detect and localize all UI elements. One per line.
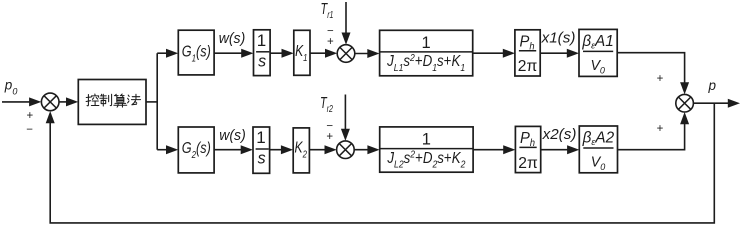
svg-text:s: s [258,51,266,70]
svg-text:βεA2: βεA2 [582,129,615,147]
svg-text:1: 1 [257,31,266,50]
svg-text:2π: 2π [518,58,538,75]
svg-text:w(s): w(s) [219,31,246,47]
svg-text:1: 1 [256,128,265,147]
svg-text:1: 1 [422,131,431,149]
svg-text:βεA1: βεA1 [581,33,613,51]
svg-text:2π: 2π [518,155,538,172]
svg-text:+: + [326,131,333,143]
svg-text:+: + [26,110,33,122]
svg-text:w(s): w(s) [219,128,246,144]
svg-text:x2(s): x2(s) [542,126,577,143]
svg-text:1: 1 [422,34,431,52]
svg-text:+: + [657,123,664,135]
svg-text:p: p [708,78,717,93]
svg-text:s: s [258,149,266,168]
svg-text:+: + [327,36,334,48]
svg-text:x1(s): x1(s) [541,29,576,46]
svg-text:+: + [657,73,664,85]
svg-text:−: − [26,124,33,136]
